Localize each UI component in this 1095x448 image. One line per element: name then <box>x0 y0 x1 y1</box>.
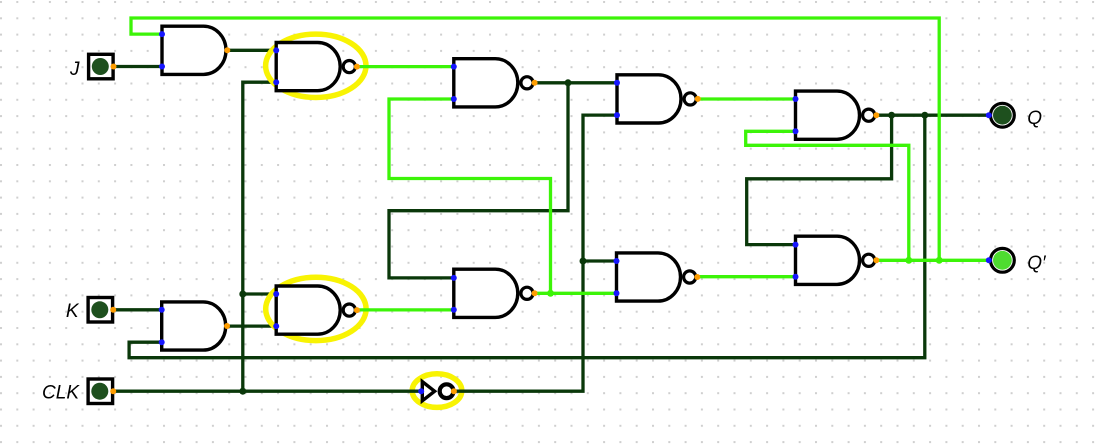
output pin Q <box>986 103 1015 127</box>
wire: CLK stub to G9 upper input <box>243 292 276 295</box>
nand-gate G3 (master latch upper) <box>451 59 538 107</box>
input CLK <box>88 379 116 404</box>
node: junction Q' cross-couple <box>905 257 912 264</box>
node: junction CLK and G9 stub <box>239 291 246 298</box>
not-gate U1 (clock inverter, highlighted) <box>418 382 457 401</box>
wire: CLK row <box>113 390 421 393</box>
wire: K output to G8 upper input <box>113 308 162 311</box>
node: junction Q feedback <box>921 112 928 119</box>
nand-gate G2 (J clocked, highlighted) <box>273 43 360 91</box>
and-gate G8 (K stage) <box>159 302 230 350</box>
node: junction G5 output <box>547 290 554 297</box>
wire: G4 output to G7 upper input <box>698 97 796 100</box>
nand-gate G6 (slave driver lower) <box>614 253 701 301</box>
node: junction inverted clock at G6 <box>580 258 587 265</box>
highlight ellipse around NOT gate <box>412 374 462 408</box>
wire: J output to G1 lower input <box>113 65 162 68</box>
wire: G5 output loop up to G3 lower input <box>389 99 551 293</box>
svg-text:Q: Q <box>1027 108 1042 129</box>
node: junction Q' feedback <box>936 257 943 264</box>
nand-gate G10 (output latch lower, Q') <box>793 236 880 284</box>
wire: G3 output to G4 upper input <box>535 81 617 84</box>
nand-gate G4 (slave driver upper) <box>614 75 701 123</box>
input K <box>88 298 116 323</box>
wire: G1 output to G2 upper input <box>227 49 276 52</box>
wire: Q' feedback up over the top to G1 upper input <box>131 18 939 260</box>
highlight ellipse around gate G9 <box>266 277 366 340</box>
node: junction CLK row and riser <box>239 388 246 395</box>
node: junction Q cross-couple <box>888 112 895 119</box>
wire: G2 output to G3 upper input <box>357 65 454 68</box>
wire: G10 output to Q' pin <box>876 259 989 262</box>
wire: CLK vertical riser to G2 lower input <box>243 82 276 391</box>
output pin Q' <box>986 248 1015 272</box>
svg-text:K: K <box>66 301 80 322</box>
nand-gate G9 (K clocked, highlighted) <box>273 286 360 334</box>
wire: Q cross-couple down to G10 upper input <box>747 115 892 244</box>
wire: G5 output to G6 lower input <box>535 292 617 295</box>
svg-text:CLK: CLK <box>42 382 80 403</box>
input J <box>89 54 117 79</box>
and-gate G1 (J stage) <box>159 26 230 74</box>
svg-text:Q′: Q′ <box>1027 253 1047 274</box>
wire: Q' cross-couple up to G7 lower input <box>746 131 909 260</box>
nand-gate G7 (output latch upper, Q) <box>793 91 880 139</box>
node: junction G3 output <box>565 79 572 86</box>
wire: G3 output cross-couple down to G5 upper input <box>389 83 568 278</box>
wire: inverted clock from NOT output up to G4 lower input <box>454 115 617 391</box>
wire: Q feedback down and across to G8 lower input <box>129 115 925 358</box>
wire: G9 output to G5 lower input <box>358 308 454 311</box>
svg-text:J: J <box>69 59 80 80</box>
nand-gate G5 (master latch lower) <box>451 269 538 317</box>
highlight ellipse around gate G2 <box>266 34 366 97</box>
wire: G8 output to G9 lower input <box>227 324 276 327</box>
wire: G6 output to G10 lower input <box>698 275 796 278</box>
wire: G7 output to Q pin <box>876 114 989 117</box>
wire: inverted clock stub to G6 upper input <box>583 259 617 262</box>
